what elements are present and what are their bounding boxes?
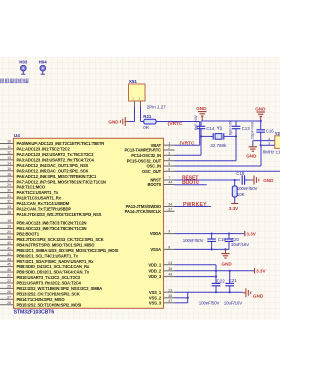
power 3.3V at VDD (255, 268, 267, 274)
crystal Y2 body (275, 136, 285, 149)
svg-text:9: 9 (168, 230, 170, 234)
svg-text:C18: C18 (236, 171, 245, 176)
svg-text:PB10:USART3_Tx:I2C2_SCL:T2C3: PB10:USART3_Tx:I2C2_SCL:T2C3 (17, 275, 81, 280)
wire VDD_2 to 3.3V (175, 270, 255, 272)
svg-text:Y1: Y1 (217, 126, 223, 131)
svg-text:VDD_1: VDD_1 (148, 262, 161, 267)
svg-text:PB13:I2S2_CK:T1CH1N:SPI2_SCK: PB13:I2S2_CK:T1CH1N:SPI2_SCK (17, 291, 80, 296)
svg-text:10uF/16V: 10uF/16V (224, 301, 242, 306)
svg-text:10uF/16V: 10uF/16V (231, 242, 249, 247)
capacitor C21 (225, 271, 234, 294)
svg-text:PC14-OSC32_IN: PC14-OSC32_IN (131, 153, 161, 158)
svg-text:PC15-OSC32_OUT: PC15-OSC32_OUT (127, 158, 162, 163)
svg-text:PA4:ADC12_IN4:DAC_OUT1:SPI1_NS: PA4:ADC12_IN4:DAC_OUT1:SPI1_NSS (17, 163, 89, 168)
ground GND at Y2 case (246, 147, 257, 159)
svg-text:30: 30 (7, 189, 11, 193)
svg-text:7: 7 (168, 176, 170, 180)
mcu pin 17 PA7 (0, 178, 106, 185)
ground GND above C16 (255, 106, 266, 122)
resistor R pull vertical (232, 180, 237, 204)
crystal Y2 value 8MHz (263, 149, 286, 154)
svg-text:GND: GND (108, 120, 119, 125)
svg-text:PA2:ADC123_IN2:USART2_Tx:T5C3:: PA2:ADC123_IN2:USART2_Tx:T5C3:T2C3 (17, 152, 95, 157)
connector X51 value 2Pin 1.27 (147, 104, 167, 109)
crystal Y1 value 32.768k (210, 143, 227, 148)
mcu pin 29 PA8 (0, 183, 46, 190)
capacitor C21 value 10uF/16V (224, 301, 242, 306)
svg-text:PB5:I2C1_SMBA:I2S3_SD:SPI3_MOS: PB5:I2C1_SMBA:I2S3_SD:SPI3_MOSI:T3C2:SPI… (17, 248, 119, 253)
svg-text:41: 41 (7, 246, 11, 250)
svg-text:36: 36 (168, 267, 172, 271)
svg-text:32: 32 (7, 200, 11, 204)
ground GND at C18 (251, 176, 274, 185)
mcu pin 38 PA15 (0, 210, 102, 217)
wire OSC_IN riser (175, 144, 262, 166)
wire VSS_3 riser (175, 292, 188, 303)
mcu pin 2 PC13-TAMPER-RTC (124, 146, 174, 153)
svg-text:47: 47 (168, 299, 172, 303)
mcu pin 43 PB7 (0, 257, 94, 264)
mcu pin 46 PB9 (0, 268, 90, 275)
wire C16 junction to Y2 pin 3 (261, 142, 275, 146)
svg-text:PB7:I2C1_SDA:FSMC_NADV:USART1_: PB7:I2C1_SDA:FSMC_NADV:USART1_Rx (17, 259, 95, 264)
svg-text:35: 35 (168, 294, 172, 298)
svg-text:43: 43 (7, 257, 11, 261)
svg-text:X51: X51 (129, 79, 138, 84)
svg-text:48: 48 (168, 273, 172, 277)
ground GND at X51 (108, 117, 128, 126)
mcu pin 36 VDD_2 (148, 267, 174, 274)
mcu pin 11 PA1 (0, 145, 71, 152)
resistor R21 value 0R (143, 125, 149, 130)
mcu pin 35 VSS_2 (149, 294, 175, 301)
schematic sheet grid background (0, 58, 280, 320)
svg-text:PB6:I2C1_SCL:T4C1:USART1_Tx: PB6:I2C1_SCL:T4C1:USART1_Tx (17, 253, 79, 258)
svg-text:4: 4 (168, 157, 170, 161)
svg-text:3.3V: 3.3V (256, 269, 266, 274)
mcu pin 22 PB11 (0, 279, 81, 286)
mcu pin 14 PA4 (0, 161, 89, 168)
mcu pin 21 PB10 (0, 274, 81, 281)
svg-text:10K: 10K (237, 192, 245, 197)
capacitor C16 (256, 121, 265, 145)
svg-text:18: 18 (7, 219, 11, 223)
svg-text:PA5:ADC12_IN5:DAC_OUT2:SPI1_SC: PA5:ADC12_IN5:DAC_OUT2:SPI1_SCK (17, 168, 89, 173)
svg-text:8: 8 (168, 246, 170, 250)
mcu pin 34 PA13-JTMS/SWDIO (126, 203, 175, 210)
mounting hole H03 symbol (20, 65, 26, 74)
svg-text:42: 42 (7, 252, 11, 256)
svg-text:PA12:CAN_Tx:T1ETR:USBDP: PA12:CAN_Tx:T1ETR:USBDP (17, 207, 72, 212)
svg-text:{VRTC: {VRTC (168, 121, 183, 127)
mcu pin 12 PA2 (0, 151, 94, 158)
mcu pin 42 PB6 (0, 252, 79, 258)
svg-text:33: 33 (7, 205, 11, 209)
svg-text:13: 13 (7, 156, 11, 160)
wire R21 to VRTC net (156, 121, 200, 123)
resistor R21 (144, 119, 156, 124)
svg-text:VDD_3: VDD_3 (148, 274, 161, 279)
svg-text:PB4:NJTRST:SPI3_MISO:T3C1:SPI1: PB4:NJTRST:SPI3_MISO:T3C1:SPI1_MISO (17, 242, 96, 247)
svg-text:C14: C14 (206, 126, 215, 131)
mcu pin 1 VBAT (151, 141, 175, 148)
svg-text:100nF/50V: 100nF/50V (237, 186, 258, 191)
svg-text:OSC_IN: OSC_IN (146, 164, 161, 169)
resistor R21 designator (143, 114, 152, 119)
svg-text:BOOT0: BOOT0 (147, 182, 161, 187)
mcu pin 45 PB8 (0, 263, 90, 270)
mcu pin 20 PB2 (0, 230, 40, 237)
wire VBAT pin to VRTC (175, 144, 200, 146)
svg-text:PC13-TAMPER-RTC: PC13-TAMPER-RTC (124, 148, 161, 153)
capacitor C19 value 100nF/50V (183, 238, 204, 243)
mcu pin 44 BOOT0 (147, 181, 174, 188)
svg-text:2Pin 1.27: 2Pin 1.27 (147, 104, 167, 109)
wire VDD_3 (175, 276, 218, 278)
svg-text:PA14-JTCK/SWCLK: PA14-JTCK/SWCLK (125, 209, 161, 214)
svg-text:GND: GND (255, 106, 266, 111)
svg-text:PB11:USART3_Rx:I2C2_SDA:T2C4: PB11:USART3_Rx:I2C2_SDA:T2C4 (17, 281, 82, 286)
mcu pin 16 PA6 (0, 172, 97, 179)
svg-text:16: 16 (7, 172, 11, 176)
svg-text:28: 28 (7, 301, 11, 305)
mcu pin 10 PA0/WKUP (0, 140, 104, 147)
svg-text:31: 31 (7, 194, 11, 198)
wire PC14 OSC32_IN to C14 (175, 154, 202, 156)
svg-text:3: 3 (268, 142, 270, 146)
mcu pin 23 VSS_1 (149, 288, 175, 295)
svg-text:8MHz ±10P: 8MHz ±10P (263, 149, 280, 154)
svg-text:46: 46 (7, 268, 11, 272)
svg-text:VDDA: VDDA (150, 231, 161, 236)
svg-text:6pF-NW: 6pF-NW (193, 115, 198, 130)
mcu U4 designator (14, 133, 20, 139)
svg-text:100nF/50V: 100nF/50V (183, 238, 204, 243)
svg-text:11: 11 (7, 145, 11, 149)
net label PWRKEY (183, 202, 207, 208)
capacitor C18 designator (236, 171, 245, 176)
svg-text:GND: GND (253, 294, 264, 299)
svg-text:{VRTC: {VRTC (180, 141, 195, 147)
capacitor C13 (232, 121, 241, 161)
crystal Y2 designator (275, 131, 281, 136)
mcu pin 37 PA14-JTCK/SWCLK (125, 207, 175, 214)
capacitor C18 (242, 175, 250, 184)
mounting hole H04 symbol (40, 65, 46, 74)
svg-text:PA11:CAN_Rx:T1C4:USBDM: PA11:CAN_Rx:T1C4:USBDM (17, 201, 70, 206)
svg-text:3.3V: 3.3V (246, 231, 256, 236)
svg-text:PB14:T1CH2N:SPI2_MISO: PB14:T1CH2N:SPI2_MISO (17, 297, 66, 302)
svg-text:24: 24 (168, 261, 172, 265)
svg-text:6pF-NW: 6pF-NW (228, 120, 233, 135)
wire cap ground rail (201, 120, 261, 122)
svg-text:34: 34 (168, 203, 172, 207)
capacitor C20 designator (231, 237, 240, 242)
svg-text:17: 17 (7, 178, 11, 182)
svg-text:GND: GND (246, 154, 257, 159)
svg-text:6: 6 (168, 167, 170, 171)
svg-text:GND: GND (263, 178, 274, 183)
wire PC15 OSC32_OUT to C13 (175, 160, 237, 162)
mcu pin 32 PA11 (0, 200, 70, 207)
ground GND below VDDA caps (221, 249, 232, 266)
capacitor C14 (197, 121, 206, 155)
svg-text:15: 15 (7, 167, 11, 171)
svg-text:PA10:T1C3:USART1_Rx: PA10:T1C3:USART1_Rx (17, 196, 62, 201)
mcu U4 body (14, 138, 164, 308)
mcu pin 8 VSSA (150, 246, 174, 253)
capacitor C19 (207, 234, 216, 250)
svg-text:OSC_OUT: OSC_OUT (142, 169, 162, 174)
svg-text:STM32F103CBT6: STM32F103CBT6 (14, 309, 55, 315)
svg-text:GND: GND (222, 262, 233, 267)
svg-text:VSS_3: VSS_3 (149, 300, 162, 305)
svg-text:2: 2 (168, 146, 170, 150)
wire OSC_OUT to right edge (175, 170, 281, 172)
mcu pin 39 PB3 (0, 235, 104, 242)
svg-text:VSS_1: VSS_1 (149, 290, 162, 295)
mcu pin 24 VDD_1 (148, 261, 174, 268)
capacitor C13 value 6pF-NW (228, 120, 233, 135)
mcu pin 28 PB15 (0, 301, 81, 308)
mcu U4 part number STM32F103CBT6 (14, 309, 55, 315)
svg-text:27: 27 (7, 295, 11, 299)
capacitor C14 designator (206, 126, 215, 131)
svg-text:12: 12 (7, 151, 11, 155)
svg-text:29: 29 (7, 183, 11, 187)
svg-text:PA8:T1C1:MCO: PA8:T1C1:MCO (17, 185, 46, 190)
net label VRTC at VBAT (180, 141, 195, 147)
capacitor C16 designator (266, 129, 275, 134)
wire NRST reset (175, 179, 241, 181)
svg-text:1: 1 (168, 141, 170, 145)
svg-text:PA3:ADC123_IN3:USART2_Rx:T5C4:: PA3:ADC123_IN3:USART2_Rx:T5C4:T2C4 (17, 157, 95, 162)
svg-text:20pF-NW: 20pF-NW (250, 122, 255, 139)
svg-text:3.3V: 3.3V (229, 206, 239, 211)
capacitor C18 value 100nF/50V (237, 186, 258, 191)
svg-text:20: 20 (7, 230, 11, 234)
mcu pin 18 PB0 (0, 219, 87, 226)
svg-text:0R: 0R (143, 125, 149, 130)
svg-text:40: 40 (7, 241, 11, 245)
mcu pin 6 OSC_OUT (142, 167, 174, 174)
mcu pin 40 PB4 (0, 241, 95, 248)
capacitor C16 value 20pF-NW (250, 122, 255, 139)
resistor value 10K (237, 192, 245, 197)
capacitor C22 value 100nF/50V (199, 301, 220, 306)
svg-text:22: 22 (7, 279, 11, 283)
mcu pin 13 PA3 (0, 156, 95, 163)
svg-text:PA0/WKUP:ADC123_IN0:T2C1ETR:T5: PA0/WKUP:ADC123_IN0:T2C1ETR:T5C1:T8ETR (17, 141, 105, 146)
wire VSS_1 to GND (175, 291, 243, 293)
svg-text:VSSA: VSSA (150, 247, 161, 252)
wire PA13 PWRKEY (175, 206, 212, 208)
wire VSSA rail (175, 248, 230, 250)
capacitor C22 designator (217, 279, 226, 284)
wire BOOT0 (175, 184, 207, 186)
svg-text:19: 19 (7, 225, 11, 229)
svg-text:C16: C16 (266, 129, 275, 134)
mcu pin 33 PA12 (0, 205, 71, 212)
net label RESET (182, 175, 198, 181)
mcu pin 9 VDDA (150, 230, 175, 237)
svg-text:PB2:BOOT1: PB2:BOOT1 (17, 232, 40, 237)
capacitor C14 value 6pF-NW (193, 115, 198, 130)
svg-text:H03: H03 (19, 60, 28, 65)
mcu pin 41 PB5 (0, 246, 118, 253)
svg-text:44: 44 (168, 181, 172, 185)
ground GND at VSS (243, 288, 264, 298)
ground GND above Y1 caps (196, 106, 207, 121)
connector X51 designator (129, 79, 138, 84)
wire X51 pin1 to GND (129, 101, 135, 122)
wire VRTC down to VBAT row (199, 122, 201, 146)
svg-text:5: 5 (168, 162, 170, 166)
svg-text:PA7:ADC12_IN7:SPI1_MOSI:T8C1N:: PA7:ADC12_IN7:SPI1_MOSI:T8C1N:T3C2:T1C1N (17, 179, 106, 184)
mcu pin 7 NRST (150, 176, 174, 183)
svg-text:3: 3 (168, 151, 170, 155)
svg-text:GND: GND (196, 106, 207, 111)
svg-text:45: 45 (7, 263, 11, 267)
mounting hole text (An Zhuang Kong x2) (0, 79, 28, 83)
wire VSS_2 (175, 297, 189, 299)
svg-text:38: 38 (7, 210, 11, 214)
svg-text:R21: R21 (143, 114, 152, 119)
svg-text:VDD_2: VDD_2 (148, 268, 161, 273)
svg-text:39: 39 (7, 235, 11, 239)
mcu pin 47 VSS_3 (149, 299, 175, 306)
capacitor C22 (212, 282, 221, 293)
svg-text:26: 26 (7, 290, 11, 294)
capacitor C20 value 10uF/16V (231, 242, 249, 247)
svg-text:25: 25 (7, 285, 11, 289)
capacitor C13 designator (242, 126, 251, 131)
svg-text:PA6:ADC12_IN6:SPI1_MISO:T8TBKI: PA6:ADC12_IN6:SPI1_MISO:T8TBKIN:T3C1 (17, 174, 98, 179)
wire VDD_1 (175, 264, 217, 266)
capacitor C21 designator (229, 278, 238, 283)
svg-text:4: 4 (268, 137, 270, 141)
svg-text:PA15:JTDI:I2S3_WS:JTDI:T2C1ETR: PA15:JTDI:I2S3_WS:JTDI:T2C1ETR:SPI3_NSS (17, 212, 102, 217)
mcu pin 5 OSC_IN (146, 162, 174, 169)
net label BOOT0 (182, 180, 199, 186)
capacitor C20 (225, 234, 234, 250)
mcu pin 26 PB13 (0, 290, 80, 297)
mcu pin 3 PC14-OSC32_IN (131, 151, 174, 158)
mcu pin 27 PB14 (0, 295, 65, 302)
wire Y2 pin 4 to GND (253, 137, 275, 147)
net label VRTC on R21 wire (168, 121, 183, 127)
svg-text:21: 21 (7, 274, 11, 278)
svg-text:PB9:SDIO_D5:I2C1_SDA:T4C4:CAN_: PB9:SDIO_D5:I2C1_SDA:T4C4:CAN_Tx (17, 270, 90, 275)
connector X51 body (129, 84, 146, 101)
svg-text:PB3:JTDO:SPI3_SCK:I2S3_CK:T2C2: PB3:JTDO:SPI3_SCK:I2S3_CK:T2C2:SPI1_SCK (17, 237, 104, 242)
crystal Y1 designator (217, 126, 223, 131)
svg-text:PB8:SDIO_D4:I2C1_SCL:T4C4:CAN_: PB8:SDIO_D4:I2C1_SCL:T4C4:CAN_Rx (17, 264, 90, 269)
svg-text:PA9:T1C2:USART1_Tx: PA9:T1C2:USART1_Tx (17, 190, 59, 195)
power 3.3V below resistor (229, 204, 239, 211)
mcu pin 48 VDD_3 (148, 273, 174, 280)
svg-text:32.768k: 32.768k (210, 143, 227, 148)
svg-text:PB0:ADC123_IN8:T3C3:T8C2N:T1C2: PB0:ADC123_IN8:T3C3:T8C2N:T1C2N (17, 221, 87, 226)
wire VDD riser (215, 265, 217, 282)
svg-text:PB15:I2S2_SD:T1CH3N:SPI2_MOSI: PB15:I2S2_SD:T1CH3N:SPI2_MOSI (17, 302, 82, 307)
svg-text:10: 10 (7, 140, 11, 144)
svg-text:14: 14 (7, 161, 11, 165)
crystal Y1 (200, 133, 237, 139)
mounting hole H03 label (19, 60, 28, 65)
svg-text:PB1:ADC123_IN9:T3C4:T8C3N:T1C3: PB1:ADC123_IN9:T3C4:T8C3N:T1C3N (17, 226, 87, 231)
svg-text:100nF/50V: 100nF/50V (199, 301, 220, 306)
mcu pin 4 PC15-OSC32_OUT (127, 157, 175, 164)
svg-text:23: 23 (168, 288, 172, 292)
mcu pin 30 PA9 (0, 189, 59, 196)
svg-text:PA1:ADC123_IN1:T5C2:T2C2: PA1:ADC123_IN1:T5C2:T2C2 (17, 147, 71, 152)
power 3.3V at VDDA (245, 231, 257, 237)
mcu pin 15 PA5 (0, 167, 89, 174)
capacitor C19 designator (218, 237, 227, 242)
mcu pin 19 PB1 (0, 225, 87, 232)
svg-text:37: 37 (168, 207, 172, 211)
svg-text:PB12:I2S2_WS:T1BKIN:SPI2_NSS:I: PB12:I2S2_WS:T1BKIN:SPI2_NSS:I2C2_SMBA (17, 286, 103, 291)
wire VDDA rail (175, 233, 245, 235)
svg-text:H04: H04 (39, 60, 48, 65)
mounting hole H04 label (39, 60, 48, 65)
wire X51 pin2 to R21 (141, 101, 144, 122)
svg-text:Y2: Y2 (275, 131, 280, 136)
mcu pin 31 PA10 (0, 194, 62, 201)
mcu pin 25 PB12 (0, 285, 102, 292)
